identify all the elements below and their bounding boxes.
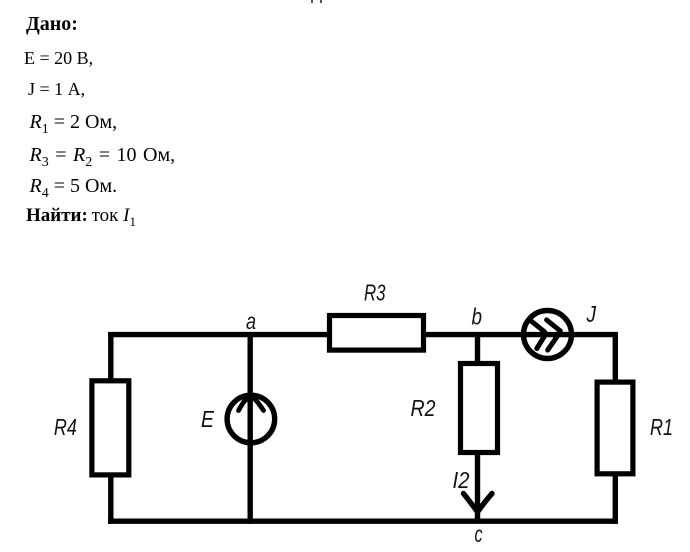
svg-text:R3: R3 [364,280,386,306]
svg-text:a: a [246,308,256,334]
svg-text:b: b [472,304,483,330]
svg-text:R1: R1 [650,414,673,440]
svg-text:I2: I2 [453,467,470,493]
svg-text:J: J [586,301,597,327]
svg-text:E: E [201,406,215,432]
svg-text:c: c [475,521,483,547]
svg-text:R4: R4 [54,414,77,440]
svg-text:R2: R2 [411,395,436,421]
